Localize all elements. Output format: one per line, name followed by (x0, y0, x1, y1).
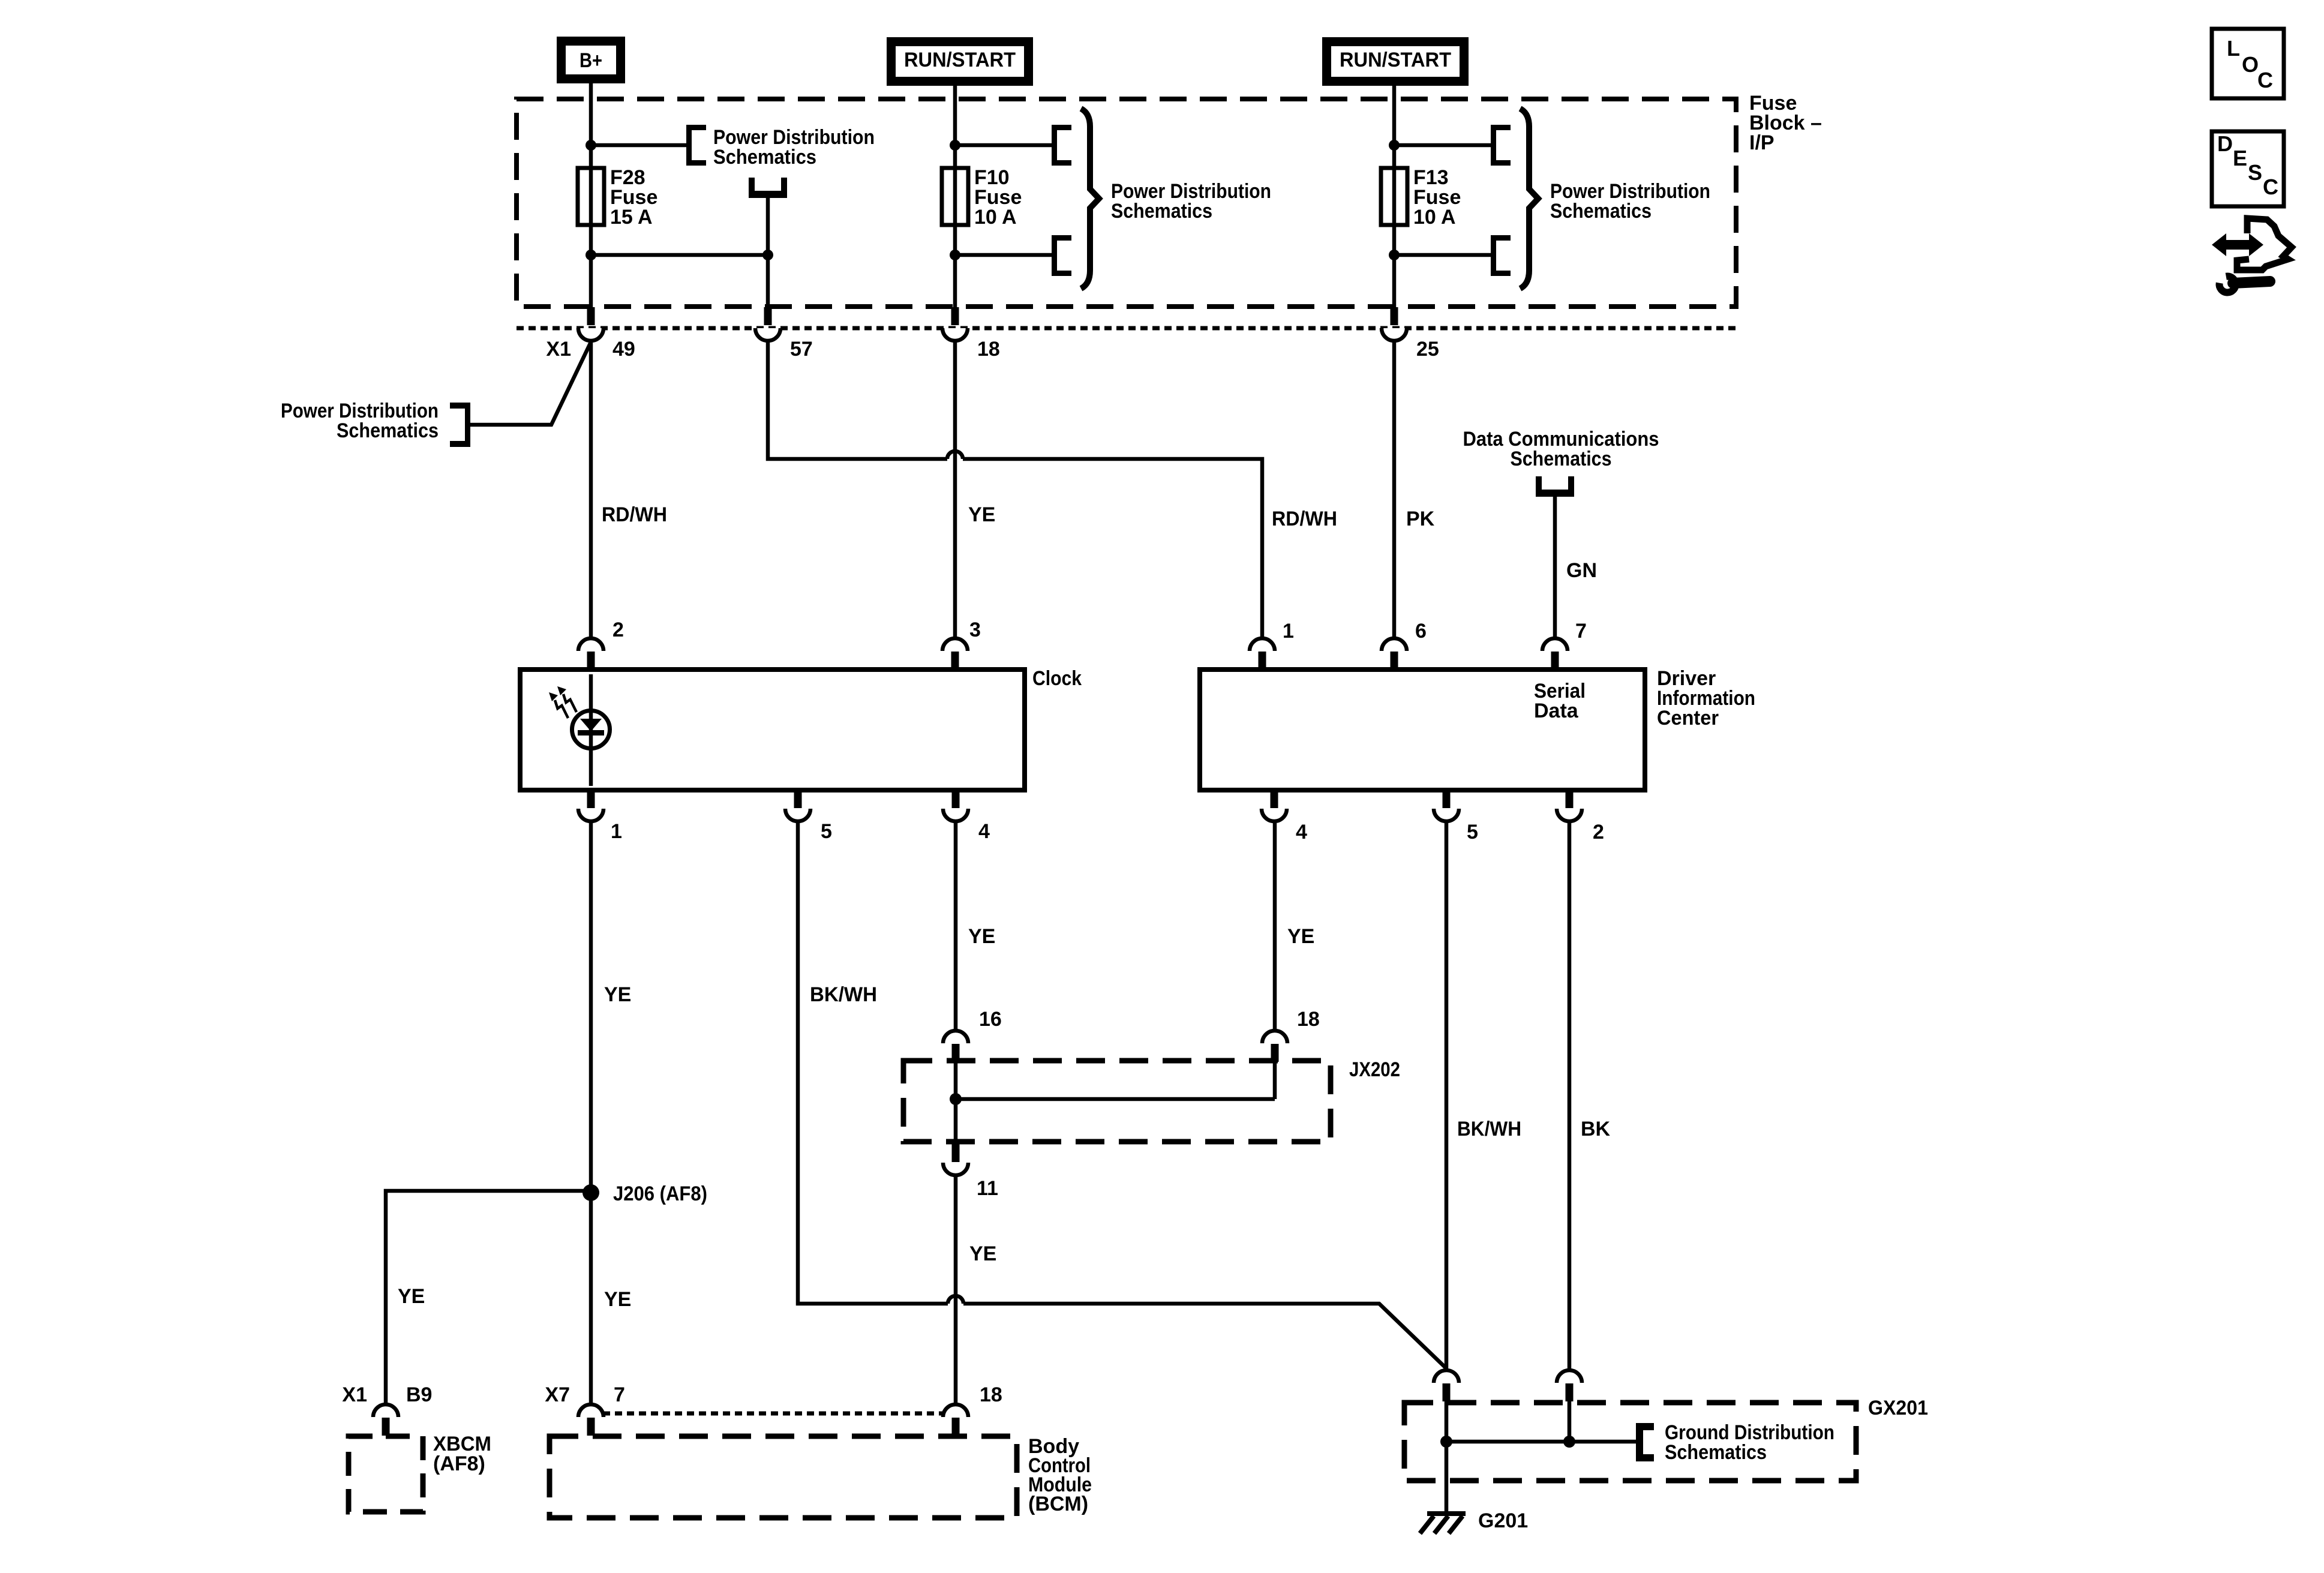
svg-text:RUN/START: RUN/START (904, 49, 1016, 71)
svg-text:10 A: 10 A (1413, 206, 1456, 229)
svg-text:X7: X7 (545, 1383, 570, 1406)
svg-text:YE: YE (604, 1288, 631, 1311)
svg-text:Schematics: Schematics (1111, 200, 1212, 223)
svg-text:B+: B+ (580, 49, 602, 72)
svg-text:Schematics: Schematics (713, 146, 816, 169)
svg-text:1: 1 (1283, 620, 1294, 643)
svg-text:18: 18 (1297, 1008, 1320, 1031)
svg-text:D: D (2217, 131, 2233, 156)
svg-text:11: 11 (977, 1177, 998, 1200)
svg-text:X1: X1 (546, 338, 571, 361)
svg-text:I/P: I/P (1749, 131, 1774, 154)
svg-text:YE: YE (398, 1285, 425, 1308)
svg-text:5: 5 (1467, 821, 1478, 843)
svg-text:4: 4 (1296, 821, 1307, 843)
svg-text:Center: Center (1657, 707, 1719, 730)
svg-text:4: 4 (978, 820, 990, 843)
svg-text:E: E (2233, 146, 2247, 170)
svg-text:18: 18 (977, 338, 1000, 361)
svg-text:Schematics: Schematics (337, 419, 439, 442)
svg-text:RD/WH: RD/WH (1272, 508, 1337, 530)
svg-text:1: 1 (611, 820, 622, 843)
svg-text:25: 25 (1416, 338, 1439, 361)
svg-text:C: C (2263, 175, 2278, 199)
svg-text:18: 18 (980, 1383, 1002, 1406)
svg-text:YE: YE (604, 983, 631, 1006)
svg-text:49: 49 (612, 338, 635, 361)
svg-text:PK: PK (1406, 508, 1435, 530)
svg-text:YE: YE (1287, 925, 1314, 948)
svg-text:X1: X1 (342, 1383, 367, 1406)
svg-text:J206 (AF8): J206 (AF8) (613, 1182, 707, 1205)
svg-text:BK/WH: BK/WH (1457, 1118, 1521, 1140)
svg-text:O: O (2242, 52, 2259, 77)
svg-text:GX201: GX201 (1868, 1397, 1928, 1419)
svg-text:2: 2 (612, 619, 624, 641)
svg-text:S: S (2248, 160, 2262, 185)
svg-text:6: 6 (1415, 620, 1427, 643)
svg-text:RUN/START: RUN/START (1340, 49, 1451, 71)
svg-text:5: 5 (821, 820, 832, 843)
svg-text:Data: Data (1534, 700, 1579, 722)
svg-text:57: 57 (790, 338, 813, 361)
svg-text:15 A: 15 A (610, 206, 653, 229)
svg-text:(AF8): (AF8) (433, 1452, 485, 1475)
svg-text:BK/WH: BK/WH (810, 983, 877, 1006)
svg-text:10 A: 10 A (974, 206, 1017, 229)
svg-text:YE: YE (968, 503, 995, 526)
svg-text:16: 16 (979, 1008, 1002, 1031)
svg-text:Schematics: Schematics (1550, 200, 1652, 223)
svg-text:3: 3 (969, 619, 981, 641)
svg-text:(BCM): (BCM) (1028, 1493, 1088, 1515)
svg-text:RD/WH: RD/WH (602, 503, 667, 526)
svg-text:L: L (2227, 36, 2240, 61)
svg-text:G201: G201 (1478, 1509, 1528, 1532)
svg-text:BK: BK (1581, 1118, 1611, 1140)
svg-text:GN: GN (1566, 559, 1597, 582)
svg-text:2: 2 (1593, 821, 1604, 843)
svg-text:Clock: Clock (1032, 667, 1082, 690)
svg-text:YE: YE (969, 1242, 996, 1265)
svg-text:JX202: JX202 (1349, 1058, 1400, 1081)
svg-text:Schematics: Schematics (1511, 448, 1612, 470)
svg-text:7: 7 (614, 1383, 625, 1406)
svg-text:Schematics: Schematics (1665, 1441, 1767, 1464)
svg-text:YE: YE (968, 925, 995, 948)
svg-text:7: 7 (1575, 620, 1587, 643)
svg-text:B9: B9 (406, 1383, 432, 1406)
svg-text:C: C (2257, 68, 2273, 92)
